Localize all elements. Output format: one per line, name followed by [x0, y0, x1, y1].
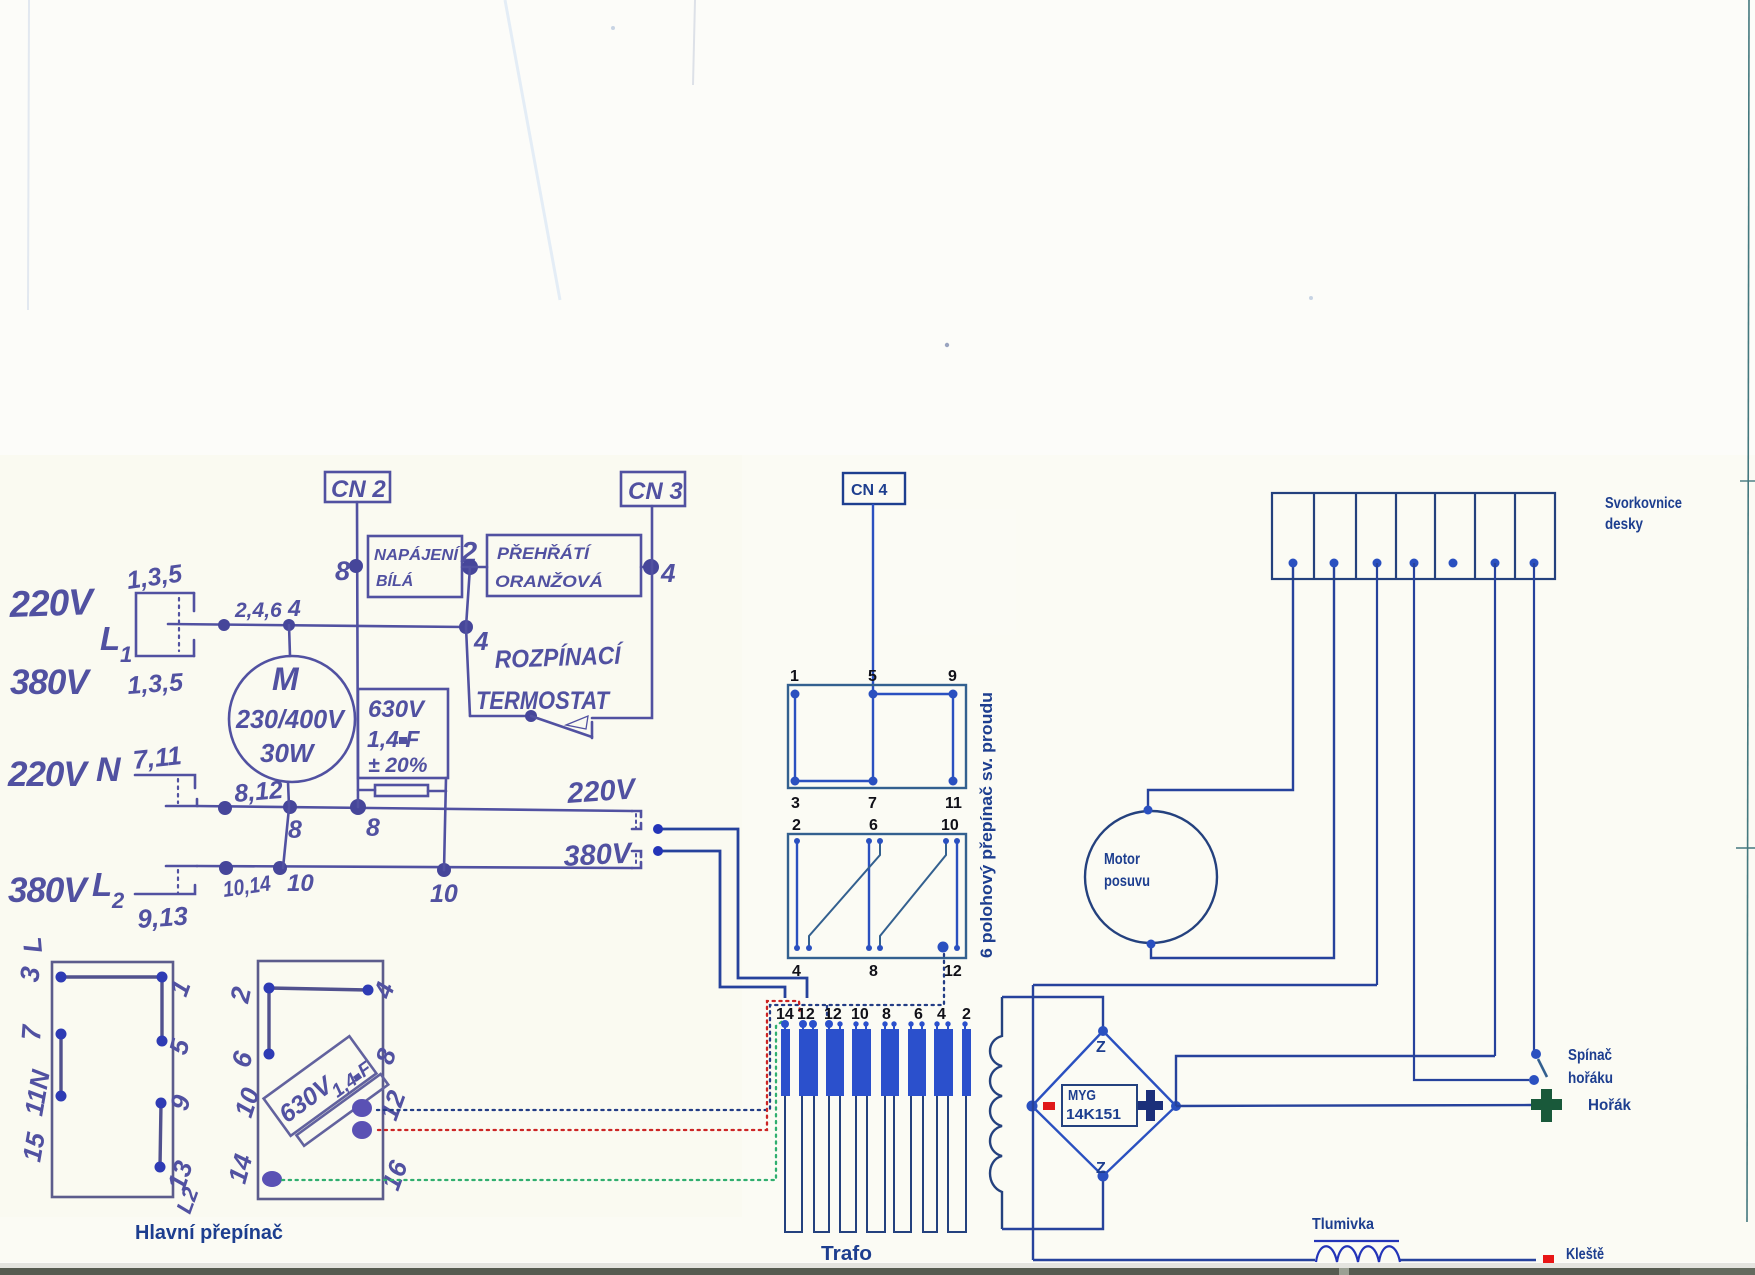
- svg-text:L: L: [17, 936, 48, 954]
- svg-text:10: 10: [851, 1006, 869, 1023]
- block A bridge 9-13: [160, 1103, 161, 1167]
- wire CN3 node down to thermostat: [592, 567, 652, 718]
- svg-text:380V: 380V: [563, 837, 635, 873]
- junction dot: [218, 801, 232, 815]
- transformer tap pins: [785, 1026, 965, 1030]
- dotted link main-switch 12 to trafo 12 and selector 12 (navy): [377, 954, 944, 1110]
- wire 380V feed to trafo 14: [658, 851, 785, 998]
- svg-text:4: 4: [473, 626, 489, 656]
- selector B transfer 4'-6': [809, 841, 880, 948]
- svg-text:8: 8: [366, 814, 380, 842]
- selector A bridge 1-3: [794, 694, 796, 781]
- wire minus rail bottom to klestě: [1033, 1259, 1315, 1261]
- svg-text:1,3,5: 1,3,5: [126, 668, 185, 700]
- svg-text:4: 4: [287, 595, 301, 621]
- selector B transfer 8'-10': [880, 841, 946, 948]
- selector B contact 10-12: [956, 841, 958, 948]
- svg-text:11: 11: [945, 795, 962, 812]
- wire bridge minus rail: [1032, 985, 1034, 1260]
- selector B contact 6-8: [868, 841, 870, 948]
- wire cap box right down to L2: [444, 778, 446, 870]
- svg-text:Motor: Motor: [1104, 851, 1140, 868]
- connector L1 symbol: [136, 593, 194, 656]
- svg-text:12: 12: [824, 1006, 842, 1023]
- burner switch Spinac horaku: [1529, 1049, 1547, 1085]
- terminal dot 12 (navy dotted start): [352, 1099, 372, 1117]
- bridge plus mark: [1138, 1090, 1163, 1121]
- wire motor top to terminal 1: [1148, 563, 1293, 811]
- connector N symbol: [135, 775, 197, 806]
- svg-text:8: 8: [288, 816, 302, 844]
- svg-text:15: 15: [16, 1130, 51, 1164]
- selector B contact 2-4: [796, 841, 798, 948]
- junction dot: [283, 619, 295, 631]
- motor M circle: [229, 656, 355, 782]
- junction dot: [219, 861, 233, 875]
- wire CN3 down: [651, 506, 654, 567]
- svg-text:CN 3: CN 3: [628, 478, 683, 505]
- svg-text:6 polohový přepínač sv. proudu: 6 polohový přepínač sv. proudu: [978, 692, 996, 958]
- svg-text:9,13: 9,13: [136, 900, 189, 933]
- svg-text:6: 6: [869, 817, 878, 834]
- wire box to pin4: [641, 566, 652, 569]
- svg-text:Spínač: Spínač: [1568, 1047, 1612, 1064]
- Klestě red terminal: [1543, 1255, 1554, 1264]
- main switch block A outline: [52, 962, 173, 1197]
- block B bridge 2-6: [267, 988, 270, 1054]
- wire CN4 to selector pin 5: [872, 504, 874, 694]
- junction dot: [437, 863, 451, 877]
- svg-text:9: 9: [948, 668, 957, 685]
- wire 220V feed to trafo 12: [658, 829, 807, 998]
- box NAPAJENI BILA: [368, 536, 462, 597]
- wire L1 to node 4: [168, 624, 466, 627]
- selector switch section B box: [788, 834, 966, 958]
- svg-text:2: 2: [962, 1006, 971, 1023]
- svg-text:2: 2: [111, 888, 125, 913]
- wire node4 to motor top: [289, 625, 290, 656]
- junction dot: [350, 799, 366, 815]
- svg-text:10: 10: [430, 880, 458, 908]
- connector CN4 box: [843, 473, 905, 504]
- terminal dots: [1289, 559, 1539, 568]
- terminal dot 12b (red dotted start): [352, 1121, 372, 1139]
- wire secondary bottom to bridge: [1002, 1176, 1103, 1229]
- svg-text:12: 12: [797, 1006, 815, 1023]
- svg-text:6: 6: [914, 1006, 923, 1023]
- block A bridge 1-5: [160, 977, 163, 1041]
- svg-text:NAPÁJENÍ: NAPÁJENÍ: [374, 545, 461, 564]
- connector CN3 box: [621, 472, 685, 506]
- svg-text:1,4 F: 1,4 F: [367, 726, 420, 752]
- capacitor 630V 1,4uF tilted box: [264, 1034, 389, 1148]
- svg-text:CN 4: CN 4: [851, 482, 888, 499]
- block B contact dots: [264, 983, 374, 1060]
- wire terminal 4 down to burner switch: [1414, 563, 1529, 1080]
- svg-text:1: 1: [790, 668, 799, 685]
- wire bridge plus up to terminal 6: [1176, 1056, 1495, 1106]
- selector A bridge 9-11: [952, 694, 954, 781]
- selector A bridge 5-7: [872, 694, 874, 781]
- svg-text:MYG: MYG: [1068, 1087, 1096, 1104]
- bridge type box MYG 14K151: [1062, 1085, 1137, 1126]
- selector B small dots: [794, 838, 960, 951]
- svg-text:380V: 380V: [8, 871, 89, 910]
- junction dot: [273, 861, 287, 875]
- svg-text:desky: desky: [1605, 516, 1643, 533]
- svg-text:TERMOSTAT: TERMOSTAT: [476, 687, 611, 715]
- bridge minus mark: [1043, 1102, 1055, 1110]
- wire CN2 down: [357, 502, 358, 807]
- svg-text:630V: 630V: [368, 696, 426, 723]
- block A bridge 7-11: [59, 1034, 62, 1096]
- connector 220V feed symbol: [632, 811, 641, 829]
- svg-text:220V: 220V: [7, 755, 89, 794]
- fold mark top: [693, 0, 695, 85]
- scan right edge: [1747, 0, 1749, 1222]
- connector CN2 box: [325, 472, 390, 502]
- svg-text:14K151: 14K151: [1066, 1106, 1121, 1123]
- svg-text:Svorkovnice: Svorkovnice: [1605, 495, 1682, 512]
- bridge rectifier diamond: [1032, 1031, 1176, 1176]
- selector switch section A box: [788, 685, 966, 788]
- capacitor box 630V 1,4uF: [358, 689, 448, 778]
- wire minus rail to terminal 3: [1033, 984, 1377, 986]
- terminal block desky: [1272, 493, 1555, 579]
- svg-text:8: 8: [335, 556, 350, 586]
- svg-text:12: 12: [944, 963, 962, 980]
- svg-text:2,4,6: 2,4,6: [234, 599, 282, 622]
- junction dot pin4: [643, 559, 659, 575]
- svg-text:14: 14: [776, 1006, 794, 1023]
- svg-text:4: 4: [937, 1006, 946, 1023]
- svg-text:PŘEHŘÁTÍ: PŘEHŘÁTÍ: [497, 544, 592, 563]
- junction dot: [459, 620, 473, 634]
- svg-text:± 20%: ± 20%: [368, 754, 428, 777]
- connector L2 symbol: [135, 866, 197, 894]
- junction dot pin2: [462, 559, 478, 575]
- block A bridge 3-1: [61, 975, 162, 978]
- svg-text:L: L: [100, 620, 120, 657]
- svg-text:CN 2: CN 2: [331, 476, 386, 503]
- transformer primary bars: [781, 1029, 971, 1096]
- svg-text:30W: 30W: [260, 738, 316, 768]
- svg-text:ROZPÍNACÍ: ROZPÍNACÍ: [494, 640, 625, 674]
- wire motor bottom to N: [288, 782, 289, 806]
- svg-text:Tlumivka: Tlumivka: [1312, 1216, 1374, 1233]
- svg-text:230/400V: 230/400V: [235, 704, 347, 734]
- thermostat switch: [470, 710, 592, 738]
- svg-text:ORANŽOVÁ: ORANŽOVÁ: [495, 572, 603, 591]
- svg-text:Hořák: Hořák: [1588, 1097, 1631, 1114]
- feed junction dots: [653, 824, 663, 834]
- svg-text:Trafo: Trafo: [821, 1242, 872, 1265]
- junction dot pin8: [349, 559, 363, 573]
- svg-text:posuvu: posuvu: [1104, 873, 1150, 890]
- svg-text:10: 10: [287, 870, 314, 897]
- svg-text:7: 7: [868, 795, 877, 812]
- wire terminal 7 down to burner switch: [1533, 563, 1535, 1050]
- svg-text:Hlavní přepínač: Hlavní přepínač: [135, 1221, 283, 1244]
- svg-text:hořáku: hořáku: [1568, 1070, 1613, 1087]
- svg-text:N: N: [96, 751, 122, 789]
- wire L2 to right: [197, 866, 632, 868]
- svg-text:10: 10: [941, 817, 959, 834]
- svg-text:1: 1: [120, 642, 132, 667]
- inductor Tlumivka: [1314, 1241, 1400, 1262]
- selector A contact dots: [791, 690, 958, 786]
- dotted link main-switch 12b to trafo 12 (red): [378, 1001, 800, 1130]
- wire pin2 down to node4 and thermostat: [466, 567, 470, 716]
- wire secondary top to bridge: [1002, 997, 1103, 1031]
- wire motor bottom to terminal 2: [1151, 563, 1334, 958]
- svg-text:4: 4: [660, 558, 676, 588]
- main switch block B outline: [258, 961, 383, 1199]
- wire terminal 3 down: [1376, 563, 1378, 985]
- wire bridge plus to horak: [1176, 1105, 1531, 1106]
- selector B pin12 junction dot: [938, 942, 949, 953]
- svg-text:8: 8: [882, 1006, 891, 1023]
- junction dot: [283, 800, 297, 814]
- svg-text:220V: 220V: [8, 581, 97, 625]
- Horak green cross: [1531, 1089, 1562, 1122]
- wire pin2: [462, 566, 487, 569]
- svg-text:380V: 380V: [10, 663, 91, 702]
- svg-text:BÍLÁ: BÍLÁ: [376, 571, 413, 590]
- block A contact dots: [56, 972, 168, 1173]
- svg-text:Z: Z: [1096, 1160, 1106, 1177]
- wire terminal 6 down: [1494, 563, 1496, 1056]
- junction dot: [218, 619, 230, 631]
- capacitor symbol: [358, 785, 446, 796]
- svg-text:8: 8: [869, 963, 878, 980]
- svg-text:M: M: [272, 661, 300, 697]
- selector A bridge 5-9: [873, 693, 953, 695]
- svg-text:Z: Z: [1096, 1039, 1106, 1056]
- svg-text:2: 2: [792, 817, 801, 834]
- dotted link main-switch 14 to trafo 14 (green): [282, 1020, 784, 1180]
- svg-text:3: 3: [791, 795, 800, 812]
- svg-text:5: 5: [868, 668, 877, 685]
- svg-text:L: L: [92, 866, 112, 903]
- wire motor junction down to L2: [283, 808, 289, 868]
- bridge vertex dots: [1027, 1026, 1182, 1182]
- selector A bridge 3-7: [795, 780, 873, 782]
- wire N to right: [197, 806, 632, 811]
- svg-text:7,11: 7,11: [131, 740, 183, 775]
- scan bottom strip: [0, 1263, 1755, 1268]
- terminal dot 14 (green dotted start): [262, 1171, 282, 1187]
- svg-text:Kleště: Kleště: [1566, 1246, 1604, 1263]
- transformer winding U loops: [785, 1096, 966, 1232]
- connector 380V feed symbol: [632, 851, 641, 868]
- block B bridge 2-4: [269, 988, 368, 990]
- transformer secondary coil: [990, 997, 1002, 1229]
- motor posuvu circle: [1085, 811, 1217, 943]
- svg-text:220V: 220V: [565, 773, 638, 810]
- box PREHRATI ORANZOVA: [487, 535, 641, 596]
